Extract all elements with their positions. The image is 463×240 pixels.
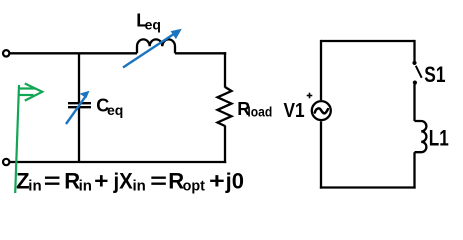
svg-text:in: in (133, 177, 146, 194)
svg-text:+: + (94, 168, 108, 193)
wire capacitor bottom lead (78, 108, 80, 162)
wire resistor top lead (224, 52, 226, 87)
equation Zin = Rin + jXin = Ropt + j0 (16, 168, 244, 194)
capacitor Ceq top plate (68, 102, 91, 104)
svg-text:j0: j0 (225, 168, 244, 193)
impedance arrow line 1 (19, 87, 36, 89)
sine symbol inside V1 (315, 108, 328, 113)
svg-text:eq: eq (145, 17, 161, 33)
svg-text:in: in (28, 177, 41, 194)
wire capacitor top lead (78, 53, 80, 102)
wire left lower (right circuit) (320, 121, 322, 188)
wire resistor bottom lead (224, 126, 226, 164)
svg-text:load: load (247, 104, 272, 120)
switch S1 blade (416, 66, 422, 78)
inductor L1 (415, 121, 427, 152)
capacitor Ceq bottom plate (68, 106, 91, 108)
impedance arrowhead (25, 84, 42, 101)
wire right lower (right circuit) (413, 152, 415, 188)
switch S1 top contact dot (412, 61, 416, 65)
svg-text:in: in (79, 177, 92, 194)
wire top-left horizontal (10, 52, 137, 54)
wire right middle (right circuit) (413, 85, 415, 122)
svg-text:S1: S1 (424, 62, 445, 87)
terminal bottom-left (3, 159, 9, 165)
wire right upper (right circuit) (413, 40, 415, 61)
svg-text:eq: eq (107, 102, 123, 118)
wire top (right circuit) (321, 40, 415, 42)
source V1 (312, 101, 331, 120)
svg-text:jX: jX (113, 168, 134, 193)
plus sign of V1 (307, 93, 313, 99)
terminal top-left (3, 50, 9, 56)
switch S1 bottom contact dot (413, 81, 417, 85)
arrow through Ceq (variable) (66, 91, 90, 124)
wire left upper (right circuit) (320, 40, 322, 100)
svg-text:+: + (209, 168, 225, 193)
svg-text:V1: V1 (284, 100, 305, 122)
svg-text:=: = (150, 168, 167, 193)
svg-text:L1: L1 (429, 125, 449, 150)
wire top-right horizontal (175, 52, 226, 54)
inductor Leq (137, 39, 175, 53)
impedance arrow line 2 (19, 94, 34, 96)
arrow through Leq (variable) (123, 29, 182, 68)
svg-text:opt: opt (183, 177, 205, 194)
impedance arrow Zin (green) pole (15, 84, 42, 194)
svg-text:=: = (44, 168, 61, 193)
resistor Rload (218, 87, 232, 126)
wire bottom (right circuit) (320, 186, 416, 188)
wire bottom horizontal (10, 161, 227, 163)
